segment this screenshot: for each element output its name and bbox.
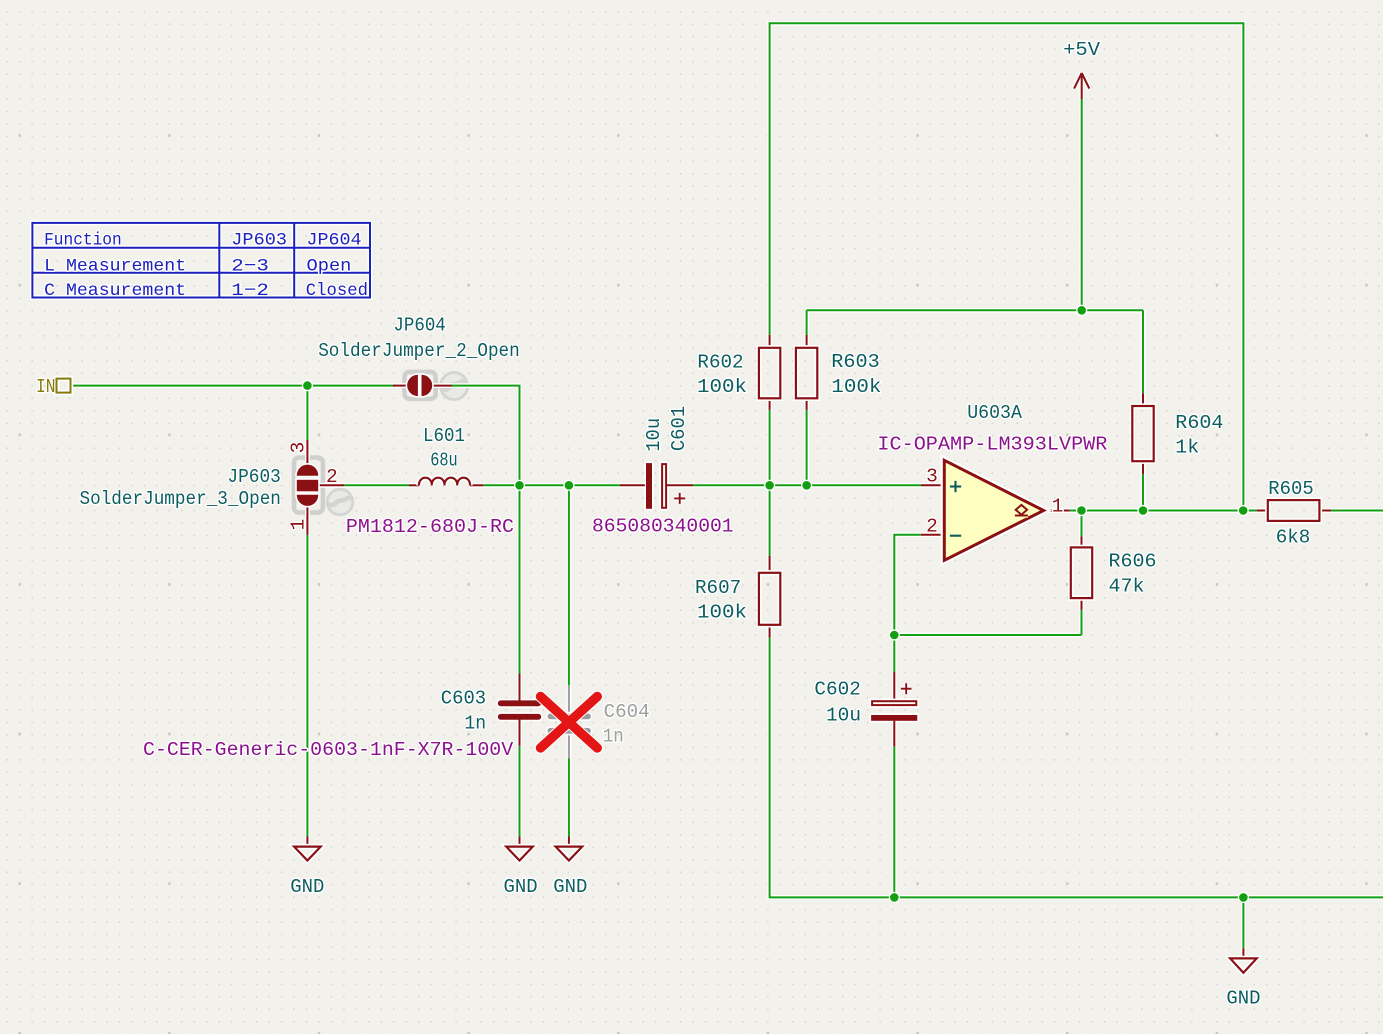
svg-text:865080340001: 865080340001 <box>592 516 734 538</box>
svg-text:1k: 1k <box>1175 437 1199 459</box>
svg-text:Open: Open <box>307 257 352 277</box>
svg-text:R606: R606 <box>1109 551 1157 573</box>
svg-text:C604: C604 <box>604 701 650 723</box>
svg-text:JP604: JP604 <box>393 314 445 336</box>
svg-text:JP603: JP603 <box>227 466 281 488</box>
svg-text:1−2: 1−2 <box>231 281 269 301</box>
svg-text:R605: R605 <box>1268 478 1313 500</box>
svg-text:L601: L601 <box>423 425 465 447</box>
svg-text:L Measurement: L Measurement <box>44 257 186 277</box>
svg-text:2: 2 <box>326 466 338 488</box>
svg-text:R604: R604 <box>1175 412 1223 434</box>
svg-text:C603: C603 <box>441 687 486 709</box>
svg-text:JP604: JP604 <box>307 231 362 251</box>
svg-text:10u: 10u <box>643 418 665 452</box>
svg-text:C-CER-Generic-0603-1nF-X7R-100: C-CER-Generic-0603-1nF-X7R-100V <box>143 739 513 761</box>
svg-text:GND: GND <box>1226 987 1260 1009</box>
svg-text:10u: 10u <box>826 704 861 726</box>
svg-text:100k: 100k <box>831 376 881 398</box>
svg-text:C601: C601 <box>668 406 690 451</box>
svg-text:C602: C602 <box>814 679 861 701</box>
svg-text:SolderJumper_3_Open: SolderJumper_3_Open <box>80 488 281 510</box>
svg-text:3: 3 <box>926 465 938 487</box>
svg-text:3: 3 <box>287 442 309 454</box>
svg-text:GND: GND <box>290 876 324 898</box>
svg-text:GND: GND <box>504 876 538 898</box>
svg-text:GND: GND <box>553 876 587 898</box>
svg-text:2−3: 2−3 <box>231 257 269 277</box>
svg-text:R603: R603 <box>831 351 880 373</box>
svg-text:2: 2 <box>926 515 938 537</box>
svg-text:Closed: Closed <box>306 281 368 301</box>
svg-text:PM1812-680J-RC: PM1812-680J-RC <box>346 516 514 538</box>
svg-text:IC-OPAMP-LM393LVPWR: IC-OPAMP-LM393LVPWR <box>877 434 1107 456</box>
svg-text:C Measurement: C Measurement <box>44 281 186 301</box>
svg-text:IN: IN <box>36 376 56 398</box>
svg-text:1: 1 <box>287 519 309 531</box>
svg-text:100k: 100k <box>697 376 747 398</box>
svg-text:6k8: 6k8 <box>1276 527 1311 549</box>
svg-text:JP603: JP603 <box>231 231 287 251</box>
svg-text:1: 1 <box>1052 495 1064 517</box>
svg-text:68u: 68u <box>430 449 457 471</box>
svg-text:100k: 100k <box>697 602 747 624</box>
svg-text:U603A: U603A <box>967 402 1022 424</box>
svg-text:R607: R607 <box>695 577 741 599</box>
svg-text:+5V: +5V <box>1063 39 1100 61</box>
svg-text:R602: R602 <box>697 351 743 373</box>
svg-text:1n: 1n <box>603 725 624 747</box>
svg-text:SolderJumper_2_Open: SolderJumper_2_Open <box>318 340 520 362</box>
svg-text:47k: 47k <box>1109 576 1145 598</box>
svg-text:Function: Function <box>44 231 122 251</box>
svg-text:1n: 1n <box>464 713 486 735</box>
